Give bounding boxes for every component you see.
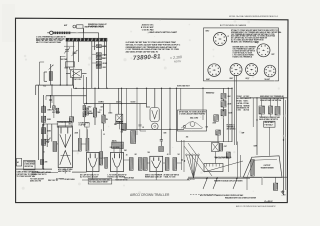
svg-text:IMMER ADJ GANG AT: IMMER ADJ GANG AT — [145, 176, 163, 179]
right col stubs — [262, 98, 278, 156]
bottom label g — [124, 177, 135, 180]
bottom label d — [116, 178, 128, 181]
svg-text:I-F = 455 KC: I-F = 455 KC — [264, 200, 274, 203]
trimmer link — [60, 46, 74, 56]
V10 label — [58, 168, 73, 173]
svg-text:OSC TRIMM: OSC TRIMM — [52, 112, 61, 114]
heater arrows — [203, 178, 238, 189]
wire avc bus — [46, 96, 147, 104]
diag wire 3 — [204, 161, 243, 172]
tube socket V4 — [230, 64, 242, 76]
wire left h — [16, 168, 52, 170]
svg-text:T DIAL TO 1720: T DIAL TO 1720 — [164, 176, 176, 179]
svg-text:250M: 250M — [102, 46, 107, 48]
svg-text:KC OSC: KC OSC — [244, 96, 251, 98]
note text block — [36, 36, 66, 44]
volume pot — [43, 64, 53, 88]
svg-text:IF: IF — [228, 36, 229, 38]
tuning eye V — [152, 110, 158, 119]
resistor chain R12 — [42, 128, 52, 134]
tube V11 — [87, 152, 100, 171]
dial pulley big — [190, 122, 195, 127]
resistor chain R10 — [42, 107, 53, 113]
tube V12 label — [108, 146, 127, 179]
avc labels — [98, 102, 135, 104]
resistor R40 — [216, 130, 221, 135]
shield tube V10 lower — [60, 151, 71, 165]
wire v x119b — [118, 121, 120, 129]
svg-text:6SK7: 6SK7 — [230, 78, 234, 80]
svg-text:6SQ7: 6SQ7 — [246, 78, 250, 80]
svg-text:DET: DET — [272, 54, 275, 56]
wire bus A — [36, 84, 74, 86]
tube stubs — [65, 169, 156, 180]
resistor R32 — [86, 138, 89, 151]
bottom note 2 — [225, 197, 257, 200]
right col labels — [259, 116, 281, 121]
svg-text:AIRCO CROWN MODEL 5A-110A SCHE: AIRCO CROWN MODEL 5A-110A SCHEMATIC — [236, 205, 276, 208]
resistor R33 — [100, 152, 108, 169]
resistor R14 — [85, 108, 92, 115]
wire v x283 — [284, 98, 286, 195]
speaker label — [260, 165, 274, 170]
rf chain resistor R2 — [96, 53, 108, 57]
wire v x250 — [252, 98, 254, 127]
wire right bus — [240, 97, 287, 99]
wire v x72 — [72, 77, 74, 85]
dial pulley small — [183, 125, 186, 128]
wire r3x — [80, 129, 101, 151]
left comps near V10 — [38, 160, 58, 173]
svg-text:+ HO: + HO — [282, 194, 287, 196]
tube socket V1 — [214, 33, 227, 46]
svg-text:HEATER VOLTAGE CIRCUIT SHOWN: HEATER VOLTAGE CIRCUIT SHOWN — [214, 180, 243, 183]
socket box title — [220, 24, 247, 27]
svg-text:IAL TO 1720KC ADJUST WAV: IAL TO 1720KC ADJUST WAV — [36, 41, 62, 44]
value label sprinkle — [43, 127, 257, 157]
rf chain resistor R1 — [96, 45, 107, 48]
svg-text:6V6: 6V6 — [206, 127, 209, 129]
freq list line 1 — [142, 24, 155, 27]
tuning eye box — [150, 108, 159, 122]
svg-text:NG AT MAX CAP SE: NG AT MAX CAP SE — [88, 25, 105, 28]
bottom label a — [30, 177, 44, 182]
tuning gang hatched band — [66, 38, 107, 41]
wire v x181 — [180, 88, 182, 110]
freq list line 3 — [142, 28, 154, 31]
NOTE label — [177, 85, 191, 87]
dial label — [190, 117, 199, 120]
band ties — [72, 144, 182, 163]
trimmer C30 — [45, 138, 51, 144]
label row 2 — [164, 173, 180, 178]
socket label row — [206, 78, 270, 81]
labels pwr — [215, 156, 232, 159]
resistor R35 — [138, 158, 142, 171]
svg-text:AL TO 1720KC ADJUST: AL TO 1720KC ADJUST — [80, 176, 99, 179]
tube socket V2 — [257, 44, 270, 57]
title AIRCO CROWN TRAV-LER — [130, 193, 170, 197]
svg-text:OSC PAD: OSC PAD — [60, 58, 68, 61]
handwritten NOTE — [174, 59, 182, 64]
cap C31 — [160, 136, 163, 146]
speaker voice coil — [251, 160, 254, 177]
socket pin labels a — [206, 31, 229, 38]
svg-text:O 1720KC ADJUST WAVE TRAP FO: O 1720KC ADJUST WAVE TRAP FO — [179, 112, 206, 115]
bottom label f — [56, 179, 64, 181]
wire v x118 — [118, 88, 120, 114]
wire v x60 — [59, 56, 61, 85]
svg-text:NDENSE: NDENSE — [244, 105, 250, 107]
connector box — [204, 164, 223, 172]
comp mid low — [69, 88, 74, 125]
svg-text:.05: .05 — [142, 127, 144, 129]
rf chain resistor R5 — [96, 65, 106, 68]
sideways text right — [237, 96, 251, 102]
plus HO — [282, 194, 287, 196]
svg-text:R 455KC OSC TRIMMER A: R 455KC OSC TRIMMER A — [233, 55, 253, 58]
output cap C50 — [273, 183, 277, 190]
wire eye h — [147, 106, 151, 108]
wires around V10 — [43, 124, 52, 169]
svg-text:VOL: VOL — [43, 86, 46, 88]
wire v x228 — [227, 88, 229, 142]
resistor R16 — [102, 115, 109, 123]
heater label — [214, 180, 243, 183]
wire v x140 — [139, 104, 144, 132]
double vertical pair — [235, 75, 237, 145]
dial cord text — [179, 110, 206, 115]
tube V13 — [150, 156, 163, 171]
right col text — [260, 95, 285, 102]
tube V13 label — [145, 173, 163, 178]
svg-text:8MF: 8MF — [242, 133, 245, 135]
ground G1 — [281, 190, 285, 193]
svg-text:GANG AT MAX CAP SET DIA: GANG AT MAX CAP SET DIA — [260, 99, 282, 102]
wire v x103 — [103, 104, 105, 132]
right col resistor A — [259, 106, 265, 114]
alignment paragraph — [126, 41, 181, 54]
resistor R19 — [221, 94, 231, 100]
svg-text:2 MEG: 2 MEG — [102, 54, 108, 56]
tube V11 label — [80, 173, 99, 178]
svg-text:.005: .005 — [186, 137, 189, 139]
wire v x126 — [126, 88, 128, 129]
label ext ant — [64, 24, 68, 27]
svg-text:MODEL 5A-110A CHASSIS SERIES A: MODEL 5A-110A CHASSIS SERIES A RIDERS PA… — [229, 15, 279, 18]
svg-text:C 600 KC PAD: C 600 KC PAD — [142, 28, 154, 31]
svg-text:.02: .02 — [167, 154, 169, 156]
left cluster cap — [49, 95, 51, 108]
left text rows — [17, 171, 39, 179]
resistor R21 — [221, 110, 233, 116]
left small box 1 — [17, 158, 22, 166]
cluster x84 chain — [83, 104, 93, 122]
svg-text:+ WAVE LENGTH SETTING CHART: + WAVE LENGTH SETTING CHART — [148, 31, 178, 34]
tuning eye socket — [152, 123, 159, 130]
boxed label bottom — [88, 178, 112, 184]
wire v x154 — [154, 88, 156, 107]
bottom label b — [48, 180, 59, 182]
svg-text:50L6GT: 50L6GT — [265, 79, 270, 81]
wire v x52 — [51, 85, 53, 96]
ladder labels extra — [206, 91, 236, 130]
handwritten note 2100 — [170, 55, 182, 60]
output transformer X1 — [212, 143, 227, 152]
bottom note 1 — [200, 194, 244, 197]
wire v x232 — [231, 88, 233, 142]
label row 1 — [31, 171, 51, 176]
resistor R39 — [131, 131, 136, 144]
loop antenna L1 — [47, 31, 53, 34]
extra tie lines — [46, 96, 146, 131]
comp c32 — [159, 147, 164, 152]
fan wires down — [181, 140, 185, 172]
wire v x86 — [86, 77, 88, 96]
resistor R30 — [53, 142, 57, 152]
wire bus left vert — [36, 85, 39, 160]
wire v x137 — [136, 88, 138, 135]
svg-text:300: 300 — [89, 111, 92, 113]
wire v x223 — [222, 88, 224, 93]
rf chain resistor R3 — [96, 57, 106, 61]
bottom dashes — [190, 194, 216, 196]
small label top center — [88, 23, 107, 28]
svg-text:READINGS WITH 1000 OHM/VOLT ME: READINGS WITH 1000 OHM/VOLT METER — [225, 197, 257, 200]
osc pad box — [114, 114, 123, 126]
page footer text — [236, 205, 276, 208]
resistor R37 — [165, 158, 169, 171]
rf chain resistor R4 — [96, 62, 107, 66]
svg-text:6SQ7: 6SQ7 — [255, 42, 259, 44]
page header text — [229, 15, 279, 18]
svg-text:50,000: 50,000 — [131, 102, 136, 104]
wire h y172 — [72, 171, 87, 173]
socket pin labels b — [255, 42, 275, 56]
trimmer C2 — [64, 47, 70, 53]
wire v x146 — [146, 88, 148, 107]
wire v x161 — [161, 88, 163, 135]
osc tube cluster — [65, 62, 75, 70]
if can above V10 — [57, 121, 73, 127]
svg-text:.05 MF: .05 MF — [102, 63, 107, 65]
left small box 2 — [24, 160, 37, 170]
tube socket V3 — [208, 64, 221, 77]
chain ties — [92, 46, 107, 63]
svg-text:.05: .05 — [126, 155, 128, 157]
svg-text:10 MEG: 10 MEG — [98, 102, 104, 104]
tube V12 — [111, 152, 124, 171]
wire h y141 — [177, 141, 233, 143]
resistor R38 — [173, 158, 177, 171]
dial cord box — [178, 110, 207, 131]
svg-text:SC TRIMME: SC TRIMME — [56, 179, 64, 181]
resistor R36 — [143, 158, 147, 171]
resistor chain R11 — [42, 116, 52, 122]
svg-text:500: 500 — [148, 152, 151, 154]
socket box text right — [231, 29, 281, 43]
svg-text:MAX CAP SET DI: MAX CAP SET DI — [58, 170, 71, 173]
wire long y180 — [82, 179, 190, 181]
wire v x43 — [43, 95, 45, 169]
svg-text:OUTPUT: OUTPUT — [264, 165, 272, 167]
dial cord lines — [181, 122, 203, 129]
svg-text:1720KC: 1720KC — [237, 96, 243, 98]
right col resistor C — [275, 107, 280, 116]
wire v x223b — [222, 99, 224, 142]
cluster left mid A — [52, 96, 61, 118]
shield tube V10 envelope — [58, 126, 72, 168]
wire spk down — [247, 177, 276, 190]
heater line — [188, 177, 287, 178]
wire v x170 — [169, 88, 171, 155]
tube socket V5 — [246, 64, 258, 76]
bottom label e — [187, 178, 195, 181]
wire v x95 — [94, 88, 96, 125]
diag wire 2 — [188, 143, 212, 176]
resistor R41 — [226, 152, 230, 158]
resistor R20 — [221, 101, 232, 107]
socket box text mid — [233, 46, 257, 59]
wire v x203 — [202, 88, 204, 120]
svg-text:OUT: OUT — [224, 146, 227, 148]
svg-text:16MF: 16MF — [254, 146, 258, 148]
wire v x237 — [238, 142, 241, 178]
right col box — [264, 121, 276, 127]
socket box — [204, 28, 279, 81]
wire pwr — [216, 135, 229, 172]
wire v x83 — [83, 75, 85, 104]
wave trap C1 — [73, 25, 105, 33]
page border — [16, 18, 289, 202]
resistor R31 — [78, 138, 81, 151]
svg-text:BOTTOM VIEW OF CHASSIS: BOTTOM VIEW OF CHASSIS — [220, 24, 247, 27]
scan speckle — [22, 19, 287, 194]
speaker trapezoid — [243, 156, 282, 178]
shield tube V10 upper — [60, 134, 71, 148]
comp chain x86 low — [85, 123, 90, 139]
avc small labels — [101, 106, 114, 115]
antenna bar coil — [53, 32, 70, 34]
diag wire 1 — [184, 146, 204, 172]
wire top V10 — [43, 121, 66, 127]
svg-text:TRANSFORMER: TRANSFORMER — [260, 167, 274, 170]
tube socket V6 — [264, 65, 276, 77]
wire gang verticals — [67, 28, 107, 88]
right col resistor B — [269, 106, 273, 114]
text cluster low — [79, 121, 90, 126]
svg-text:NOTE: NOTE — [174, 59, 182, 64]
comp near dial — [213, 115, 219, 125]
svg-text:OSC COIL: OSC COIL — [74, 79, 82, 81]
wire v x176 — [176, 88, 178, 141]
if transformer T1 — [112, 139, 124, 148]
wire v x121 — [121, 88, 123, 158]
small labels mid — [215, 156, 231, 159]
IF label — [264, 200, 274, 203]
svg-text:.01: .01 — [103, 134, 105, 136]
svg-text:35: 35 — [43, 152, 45, 154]
handwritten job number — [133, 53, 161, 62]
label osc padder — [60, 58, 68, 61]
shield tube V10 ticks — [61, 128, 68, 134]
svg-text:6SK7: 6SK7 — [88, 107, 92, 109]
svg-text:C18: C18 — [121, 132, 124, 134]
resistor R34 — [129, 158, 133, 171]
freq list line 2 — [141, 26, 155, 29]
resistor chain R13 — [42, 139, 50, 145]
resistor R15 — [93, 108, 101, 117]
bottom label c — [65, 178, 76, 181]
freq list line 4 — [148, 31, 178, 34]
trimmer C3 — [71, 50, 77, 56]
wire bus B — [73, 87, 232, 89]
wire antenna out — [70, 32, 99, 34]
cable fan — [186, 154, 200, 178]
svg-text:AIRCO CROWN TRAV-LER: AIRCO CROWN TRAV-LER — [130, 193, 170, 197]
wire v x257 — [256, 98, 258, 155]
osc coil box — [66, 70, 87, 82]
comp c18 — [121, 124, 127, 134]
wire bus step — [72, 85, 74, 88]
svg-text:6SK7: 6SK7 — [206, 31, 210, 33]
right text col extra — [237, 102, 250, 111]
if transformer T1 wires — [114, 149, 120, 153]
svg-text:.0001: .0001 — [102, 67, 106, 69]
wire h y129 — [122, 128, 185, 130]
wire pot feed — [40, 62, 45, 85]
